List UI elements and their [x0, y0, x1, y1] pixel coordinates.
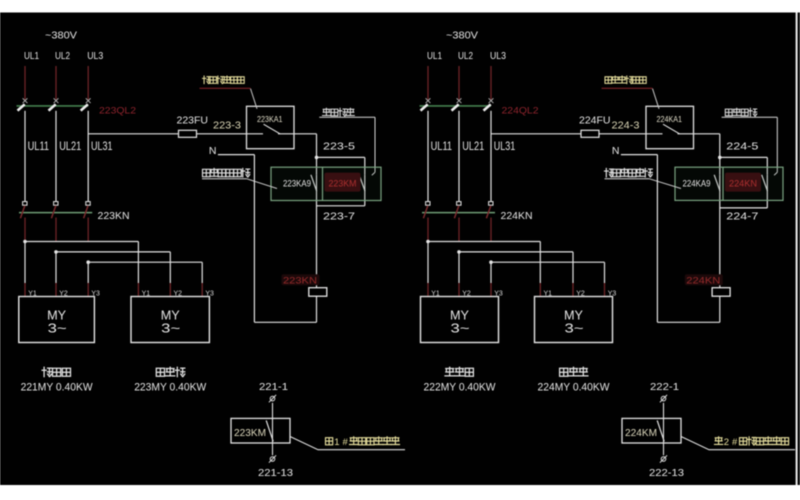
contact 224KA1 output wire [678, 133, 720, 135]
svg-text:221-1: 221-1 [259, 381, 288, 393]
svg-text:224KA9: 224KA9 [683, 178, 711, 188]
svg-text:~380V: ~380V [45, 30, 77, 42]
branch wire 2 (right 224 circuit) [457, 250, 461, 254]
motor feed wire at x=428 (right 224 circuit) [427, 242, 429, 284]
svg-text:223KM: 223KM [329, 179, 357, 189]
green annotation frame (right 224 circuit) [675, 167, 783, 200]
svg-text:222-1: 222-1 [650, 381, 679, 393]
wire contactor out 3 (left 223 circuit) [87, 218, 89, 242]
svg-text:221MY 0.40KW: 221MY 0.40KW [21, 382, 94, 394]
wire UL2 supply (left 223 circuit) [55, 66, 57, 100]
breaker 223QL2 blades [18, 104, 25, 110]
svg-text:MY: MY [161, 308, 180, 323]
svg-text:224KN: 224KN [501, 210, 533, 222]
svg-text:223KM: 223KM [234, 428, 266, 439]
breaker 223QL2 green bar [17, 105, 89, 107]
wire contactor out 2 (left 223 circuit) [55, 218, 57, 242]
contact 224KA1 blade [663, 124, 680, 134]
annotation 'from main machine room' (left 223 circuit) [203, 168, 250, 177]
wire below 224KM contact [766, 175, 768, 208]
svg-text:N: N [612, 145, 620, 157]
svg-text:UL1: UL1 [427, 50, 442, 62]
svg-text:MY: MY [47, 308, 66, 323]
svg-text:3~: 3~ [565, 322, 584, 336]
contact box 224KM [622, 418, 681, 443]
annotation underline dark red (right 224 circuit) [602, 87, 653, 89]
svg-text:UL11: UL11 [28, 139, 50, 153]
svg-text:MY: MY [564, 308, 583, 323]
fuse 224FU body [581, 130, 599, 137]
wire loop top (right 224 circuit) [720, 156, 768, 158]
motor feed wire at x=170.3 (left 223 circuit) [169, 252, 171, 283]
svg-text:224QL2: 224QL2 [502, 106, 539, 117]
machine room label underline [605, 178, 650, 180]
green frame divider (right 224 circuit) [722, 167, 724, 200]
contactor 223KN green bar [19, 212, 92, 214]
contact 224KA1 input stub [646, 133, 663, 135]
brake caption (chinese) 224 [560, 367, 588, 376]
contactor 224KN green bar [422, 212, 495, 214]
motor feed wire at x=540.3 (right 224 circuit) [539, 242, 541, 284]
wire UL11 (left 223 circuit) [24, 111, 26, 202]
svg-text:223-7: 223-7 [323, 211, 355, 223]
cable terminal lower (left 223 circuit) [270, 457, 275, 462]
red halo behind coil label (right 224 circuit) [685, 274, 723, 285]
brake caption (chinese) 222 [445, 367, 473, 376]
svg-text:UL3: UL3 [87, 50, 103, 62]
wire UL1 supply (right 224 circuit) [427, 66, 429, 100]
annotation (yellow) 'from power supply' (right 224 circuit) [605, 76, 646, 84]
svg-text:223KN: 223KN [98, 210, 130, 222]
wire 224KA1 output down [719, 134, 721, 175]
svg-text:~380V: ~380V [446, 30, 478, 42]
leader to control cabinet (right 224 circuit) [681, 437, 795, 450]
motor 221MY box [19, 297, 95, 343]
contact 223KM blade (in green frame) [359, 175, 365, 191]
wire UL3 supply (left 223 circuit) [87, 66, 89, 100]
svg-text:224KN: 224KN [686, 275, 720, 286]
wire UL3 supply (right 224 circuit) [490, 66, 492, 100]
right border line [796, 13, 798, 486]
svg-text:223KA1: 223KA1 [257, 114, 283, 124]
motor feed wire at x=491 (right 224 circuit) [490, 262, 492, 283]
svg-text:3~: 3~ [451, 322, 470, 336]
annotation leader to 224KA1 [653, 89, 660, 109]
red halo behind 224KN [725, 173, 761, 192]
svg-text:224KM: 224KM [625, 428, 657, 439]
caption (yellow) to cabinet #2 (right 224 circuit) [715, 437, 723, 445]
svg-text:224-3: 224-3 [612, 119, 640, 131]
svg-text:UL2: UL2 [55, 50, 70, 62]
svg-text:UL21: UL21 [462, 139, 484, 153]
branch wire 3 (right 224 circuit) [489, 260, 493, 264]
junction node at loop top (left 223 circuit) [315, 156, 319, 160]
contact 224KM blade [657, 420, 664, 441]
breaker 224QL2 pole x-marks [426, 98, 431, 103]
breaker 223QL2 pole x-marks [23, 98, 28, 103]
emergency button leader vertical [374, 117, 376, 172]
svg-text:N: N [209, 145, 217, 157]
wire UL31 to fuse 223FU [88, 133, 178, 135]
svg-text:224MY 0.40KW: 224MY 0.40KW [538, 382, 611, 394]
coil 223KN body [309, 288, 327, 297]
machine room leader line [247, 179, 278, 189]
wire coil 223KN to N-return [316, 296, 318, 322]
svg-text:223KN: 223KN [283, 275, 317, 286]
annotation 'from main machine room' (right 224 circuit) [605, 168, 653, 177]
contact 223KA1 blade [264, 124, 281, 134]
wire contactor out 1 (right 224 circuit) [427, 218, 429, 242]
svg-text:224-5: 224-5 [726, 141, 758, 153]
svg-text:222-13: 222-13 [649, 467, 684, 479]
coil 224KN body [712, 288, 730, 297]
cable terminal lower (right 224 circuit) [661, 457, 666, 462]
svg-text:223MY 0.40KW: 223MY 0.40KW [134, 382, 207, 394]
motor feed wire at x=88.2 (left 223 circuit) [87, 262, 89, 283]
wire loop right branch (left 223 circuit) [364, 157, 366, 174]
relay box 223KA1 [247, 106, 295, 148]
wire UL31 (left 223 circuit) [87, 111, 89, 202]
contact 223KM blade [266, 420, 273, 441]
contactor 224KN pole squares [426, 202, 430, 206]
annotation underline dark red (left 223 circuit) [200, 87, 251, 89]
svg-text:224KN: 224KN [729, 179, 757, 189]
svg-text:1: 1 [334, 437, 339, 448]
annotation 'emergency button' (left 223 circuit) [323, 108, 355, 116]
red halo behind 223KM [325, 173, 361, 192]
motor feed wire at x=202.2 (left 223 circuit) [201, 262, 203, 283]
wire contactor out 2 (right 224 circuit) [458, 218, 460, 242]
svg-text:223KA9: 223KA9 [283, 178, 311, 188]
contact 223KA1 input stub [247, 133, 264, 135]
svg-text:223FU: 223FU [177, 116, 209, 127]
motor 222MY box [421, 297, 499, 343]
svg-text:MY: MY [450, 308, 469, 323]
wire loop bottom join (right 224 circuit) [720, 207, 768, 209]
caption (yellow) to cabinet #1 (left 223 circuit) [326, 438, 333, 445]
motor 224MY box [535, 297, 613, 343]
svg-text:UL11: UL11 [431, 139, 453, 153]
motor feed wire at x=138.4 (left 223 circuit) [137, 242, 139, 284]
wire UL31 to fuse 224FU [491, 133, 581, 135]
svg-text:UL31: UL31 [91, 139, 113, 153]
svg-text:224-7: 224-7 [726, 211, 758, 223]
emergency button leader arrow [372, 172, 375, 175]
branch wire 3 (left 223 circuit) [86, 260, 90, 264]
emergency button leader underline [319, 116, 375, 118]
wire UL11 (right 224 circuit) [427, 111, 429, 202]
svg-text:2: 2 [724, 437, 729, 448]
wire UL31 (right 224 circuit) [490, 111, 492, 202]
motor 223MY box [131, 297, 209, 343]
contact 224KA9 blade [714, 175, 720, 191]
svg-text:224FU: 224FU [579, 116, 611, 127]
svg-text:222MY 0.40KW: 222MY 0.40KW [424, 382, 497, 394]
brake caption (chinese) 223 [156, 367, 185, 376]
svg-text:3~: 3~ [161, 322, 180, 336]
fuse 223FU body [179, 130, 197, 137]
wire contactor out 3 (right 224 circuit) [490, 218, 492, 242]
cable terminal upper (right 224 circuit) [661, 396, 666, 401]
wire contactor out 1 (left 223 circuit) [24, 218, 26, 242]
breaker 224QL2 blades [421, 104, 428, 110]
emergency button leader underline [722, 116, 778, 118]
wire below 223KM contact [364, 175, 366, 206]
brake caption (chinese) 221 [42, 367, 70, 376]
branch wire 1 (right 224 circuit) [426, 240, 430, 244]
machine room label underline [202, 178, 247, 180]
branch wire 1 (left 223 circuit) [23, 240, 27, 244]
motor feed wire at x=604.5 (right 224 circuit) [604, 262, 606, 283]
wire loop bottom join (left 223 circuit) [317, 205, 365, 207]
svg-text:224KA1: 224KA1 [657, 114, 683, 124]
wire terminal to 224KM box [663, 403, 665, 455]
motor feed wire at x=573 (right 224 circuit) [572, 252, 574, 283]
motor feed wire at x=25 (left 223 circuit) [24, 242, 26, 284]
contactor 224KN blades [423, 206, 427, 218]
cable terminal upper (left 223 circuit) [270, 396, 275, 401]
emergency button leader arrow [774, 172, 777, 175]
emergency button leader vertical [776, 117, 778, 172]
wire below contact 224KA9 [719, 175, 721, 288]
svg-text:#: # [343, 437, 349, 448]
wire UL21 (right 224 circuit) [458, 111, 460, 202]
wire N (right 224 circuit) [621, 154, 658, 156]
annotation (yellow) 'from power supply' (left 223 circuit) [203, 76, 245, 84]
svg-text:223QL2: 223QL2 [99, 106, 136, 117]
leader to control cabinet (left 223 circuit) [290, 437, 405, 450]
wire terminal to 223KM box [272, 403, 274, 455]
annotation 'emergency button' (right 224 circuit) [725, 108, 757, 116]
green frame divider (left 223 circuit) [322, 167, 324, 200]
svg-text:UL3: UL3 [490, 50, 506, 62]
wire loop top (left 223 circuit) [317, 156, 365, 158]
green annotation frame (left 223 circuit) [271, 167, 381, 200]
wire UL2 supply (right 224 circuit) [458, 66, 460, 100]
wire 223-3 [197, 133, 247, 135]
svg-text:UL1: UL1 [24, 50, 39, 62]
contactor 223KN blades [20, 206, 24, 218]
relay box 224KA1 [646, 106, 694, 148]
svg-text:3~: 3~ [48, 322, 67, 336]
contact box 223KM [231, 418, 290, 443]
wire coil 224KN to N-return [719, 296, 721, 322]
wire UL1 supply (left 223 circuit) [24, 66, 26, 100]
svg-text:UL2: UL2 [458, 50, 473, 62]
wire below contact 223KA9 [316, 175, 318, 288]
svg-text:#: # [732, 437, 738, 448]
wire 224-3 [599, 133, 646, 135]
svg-text:223-5: 223-5 [323, 141, 355, 153]
wire loop right branch (right 224 circuit) [766, 157, 768, 174]
contact 223KA1 output wire [278, 133, 317, 135]
red halo behind coil label (left 223 circuit) [282, 274, 320, 285]
motor feed wire at x=56 (left 223 circuit) [55, 252, 57, 283]
branch wire 2 (left 223 circuit) [54, 250, 58, 254]
annotation leader to 223KA1 [251, 89, 258, 109]
svg-text:UL31: UL31 [494, 139, 516, 153]
machine room leader line [649, 179, 681, 189]
breaker 224QL2 green bar [420, 105, 492, 107]
svg-text:223-3: 223-3 [213, 119, 241, 131]
wire 223KA1 output down [316, 134, 318, 175]
junction node at loop top (right 224 circuit) [718, 156, 722, 160]
wire UL21 (left 223 circuit) [55, 111, 57, 202]
contact 224KM blade (in green frame) [762, 175, 768, 191]
wire N (left 223 circuit) [218, 154, 255, 156]
contactor 223KN pole squares [23, 202, 27, 206]
contact 223KA9 blade [311, 175, 317, 191]
motor feed wire at x=459 (right 224 circuit) [458, 252, 460, 283]
svg-text:UL21: UL21 [59, 139, 81, 153]
svg-text:221-13: 221-13 [258, 467, 293, 479]
